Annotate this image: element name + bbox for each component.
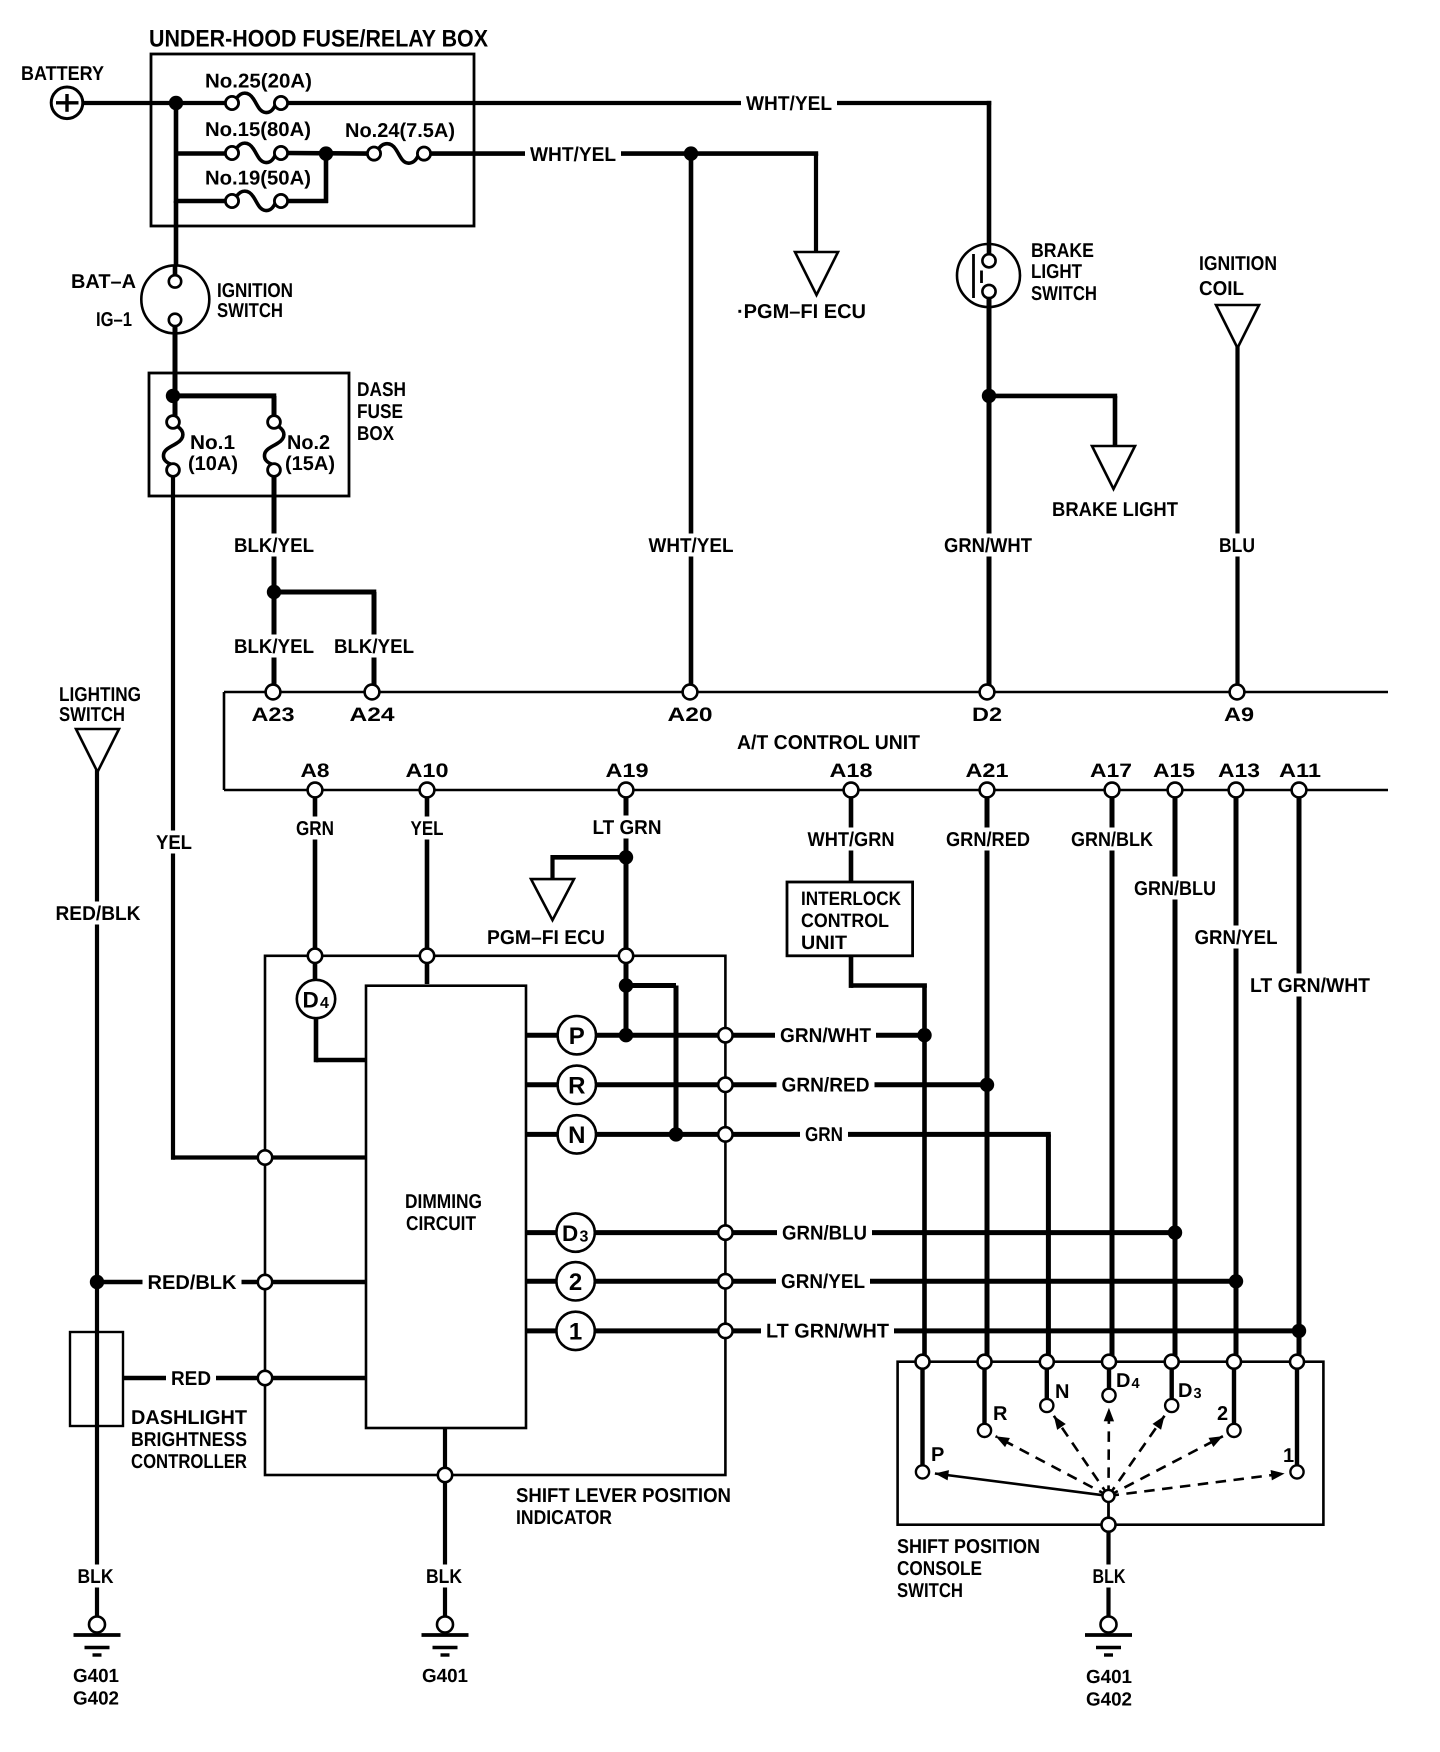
svg-text:DASH: DASH bbox=[357, 379, 406, 401]
svg-text:1: 1 bbox=[1283, 1445, 1294, 1467]
svg-text:BLK: BLK bbox=[426, 1566, 462, 1588]
svg-text:A17: A17 bbox=[1090, 760, 1132, 782]
svg-text:BLK: BLK bbox=[1093, 1566, 1126, 1588]
svg-text:INDICATOR: INDICATOR bbox=[516, 1507, 612, 1529]
svg-text:No.1: No.1 bbox=[190, 432, 235, 454]
svg-text:GRN/RED: GRN/RED bbox=[782, 1075, 870, 1097]
svg-text:R: R bbox=[993, 1403, 1008, 1425]
svg-text:A11: A11 bbox=[1279, 760, 1321, 782]
svg-text:(10A): (10A) bbox=[188, 453, 238, 475]
svg-text:WHT/GRN: WHT/GRN bbox=[808, 829, 895, 851]
svg-text:DIMMING: DIMMING bbox=[405, 1191, 482, 1213]
svg-text:No.19(50A): No.19(50A) bbox=[205, 168, 311, 190]
svg-text:A13: A13 bbox=[1218, 760, 1260, 782]
svg-text:SWITCH: SWITCH bbox=[897, 1580, 963, 1602]
svg-text:A18: A18 bbox=[830, 760, 873, 782]
svg-text:2: 2 bbox=[569, 1269, 582, 1296]
svg-text:A15: A15 bbox=[1153, 760, 1195, 782]
svg-text:D2: D2 bbox=[972, 704, 1002, 726]
svg-text:BRIGHTNESS: BRIGHTNESS bbox=[131, 1429, 247, 1451]
svg-text:BLK/YEL: BLK/YEL bbox=[334, 636, 414, 658]
svg-text:(15A): (15A) bbox=[285, 453, 335, 475]
svg-text:RED: RED bbox=[171, 1368, 211, 1390]
svg-text:SHIFT LEVER POSITION: SHIFT LEVER POSITION bbox=[516, 1485, 731, 1507]
svg-text:IGNITION: IGNITION bbox=[217, 280, 293, 302]
svg-text:PGM–FI ECU: PGM–FI ECU bbox=[487, 927, 605, 949]
svg-text:A20: A20 bbox=[668, 704, 713, 726]
svg-text:UNIT: UNIT bbox=[801, 932, 847, 954]
svg-text:SWITCH: SWITCH bbox=[217, 300, 283, 322]
svg-text:COIL: COIL bbox=[1199, 278, 1244, 300]
svg-text:RED/BLK: RED/BLK bbox=[56, 903, 142, 925]
svg-text:G401: G401 bbox=[73, 1666, 119, 1687]
svg-text:BLK: BLK bbox=[78, 1566, 114, 1588]
svg-text:LIGHTING: LIGHTING bbox=[59, 684, 141, 706]
svg-text:SHIFT POSITION: SHIFT POSITION bbox=[897, 1536, 1040, 1558]
svg-text:CONSOLE: CONSOLE bbox=[897, 1558, 982, 1580]
svg-text:WHT/YEL: WHT/YEL bbox=[746, 93, 832, 115]
svg-text:SWITCH: SWITCH bbox=[1031, 283, 1097, 305]
svg-text:A10: A10 bbox=[406, 760, 449, 782]
svg-text:YEL: YEL bbox=[411, 818, 444, 840]
svg-text:4: 4 bbox=[1132, 1376, 1140, 1392]
svg-text:BLK/YEL: BLK/YEL bbox=[234, 535, 314, 557]
svg-text:GRN: GRN bbox=[296, 818, 334, 840]
svg-text:3: 3 bbox=[1194, 1386, 1202, 1402]
svg-text:CIRCUIT: CIRCUIT bbox=[406, 1213, 476, 1235]
svg-text:GRN/RED: GRN/RED bbox=[946, 829, 1030, 851]
svg-text:WHT/YEL: WHT/YEL bbox=[530, 144, 616, 166]
svg-text:CONTROLLER: CONTROLLER bbox=[131, 1451, 247, 1473]
svg-text:A9: A9 bbox=[1224, 704, 1254, 726]
svg-text:IG–1: IG–1 bbox=[96, 309, 132, 331]
svg-text:No.15(80A): No.15(80A) bbox=[205, 119, 311, 141]
svg-text:D: D bbox=[562, 1221, 578, 1246]
svg-text:No.24(7.5A): No.24(7.5A) bbox=[345, 120, 455, 142]
svg-text:GRN/WHT: GRN/WHT bbox=[780, 1025, 871, 1047]
svg-text:FUSE: FUSE bbox=[357, 401, 403, 423]
svg-text:YEL: YEL bbox=[156, 832, 192, 854]
svg-text:GRN/WHT: GRN/WHT bbox=[944, 535, 1032, 557]
svg-text:No.25(20A): No.25(20A) bbox=[205, 71, 312, 93]
svg-text:GRN/BLU: GRN/BLU bbox=[1134, 878, 1216, 900]
svg-text:BATTERY: BATTERY bbox=[21, 63, 105, 85]
svg-text:4: 4 bbox=[320, 995, 329, 1012]
svg-text:GRN/YEL: GRN/YEL bbox=[781, 1271, 865, 1293]
svg-text:BRAKE LIGHT: BRAKE LIGHT bbox=[1052, 499, 1178, 521]
svg-text:LT GRN: LT GRN bbox=[593, 817, 662, 839]
svg-text:G402: G402 bbox=[73, 1689, 119, 1710]
svg-text:D: D bbox=[1116, 1370, 1130, 1392]
svg-text:1: 1 bbox=[569, 1319, 582, 1346]
svg-text:INTERLOCK: INTERLOCK bbox=[801, 888, 901, 910]
svg-text:·PGM–FI ECU: ·PGM–FI ECU bbox=[737, 301, 866, 323]
svg-text:P: P bbox=[931, 1444, 944, 1466]
svg-text:G401: G401 bbox=[1086, 1667, 1132, 1688]
svg-text:3: 3 bbox=[580, 1229, 589, 1246]
svg-text:BLU: BLU bbox=[1219, 535, 1255, 557]
svg-text:N: N bbox=[1055, 1381, 1069, 1403]
svg-text:BLK/YEL: BLK/YEL bbox=[234, 636, 314, 658]
svg-text:R: R bbox=[568, 1072, 585, 1099]
svg-text:A/T CONTROL UNIT: A/T CONTROL UNIT bbox=[737, 732, 920, 754]
svg-text:BRAKE: BRAKE bbox=[1031, 240, 1094, 262]
svg-text:BOX: BOX bbox=[357, 423, 395, 445]
svg-text:G402: G402 bbox=[1086, 1690, 1132, 1711]
svg-text:P: P bbox=[569, 1023, 585, 1050]
svg-text:LIGHT: LIGHT bbox=[1031, 261, 1082, 283]
svg-text:DASHLIGHT: DASHLIGHT bbox=[131, 1407, 247, 1429]
svg-text:SWITCH: SWITCH bbox=[59, 704, 125, 726]
svg-text:CONTROL: CONTROL bbox=[801, 910, 889, 932]
svg-text:D: D bbox=[303, 987, 319, 1012]
svg-text:A19: A19 bbox=[606, 760, 649, 782]
svg-text:A24: A24 bbox=[350, 704, 395, 726]
svg-text:GRN/YEL: GRN/YEL bbox=[1195, 927, 1278, 949]
svg-text:GRN/BLU: GRN/BLU bbox=[782, 1222, 867, 1244]
svg-text:No.2: No.2 bbox=[287, 432, 330, 454]
svg-text:A21: A21 bbox=[966, 760, 1009, 782]
svg-text:WHT/YEL: WHT/YEL bbox=[649, 535, 734, 557]
svg-text:G401: G401 bbox=[422, 1666, 468, 1687]
svg-text:RED/BLK: RED/BLK bbox=[148, 1272, 238, 1294]
svg-text:LT GRN/WHT: LT GRN/WHT bbox=[1250, 975, 1370, 997]
svg-text:D: D bbox=[1178, 1380, 1192, 1402]
svg-text:GRN: GRN bbox=[805, 1124, 843, 1146]
svg-text:LT GRN/WHT: LT GRN/WHT bbox=[766, 1321, 889, 1343]
svg-text:BAT–A: BAT–A bbox=[71, 271, 136, 293]
svg-text:A8: A8 bbox=[301, 760, 330, 782]
svg-text:GRN/BLK: GRN/BLK bbox=[1071, 829, 1153, 851]
svg-text:N: N bbox=[568, 1122, 585, 1149]
svg-text:UNDER-HOOD FUSE/RELAY BOX: UNDER-HOOD FUSE/RELAY BOX bbox=[149, 26, 488, 53]
svg-text:IGNITION: IGNITION bbox=[1199, 253, 1277, 275]
svg-text:A23: A23 bbox=[252, 704, 295, 726]
svg-text:2: 2 bbox=[1217, 1403, 1228, 1425]
